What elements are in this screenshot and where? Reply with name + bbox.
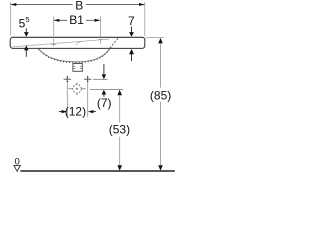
(12) right extension line <box>87 83 89 117</box>
svg-text:(7): (7) <box>97 96 112 110</box>
dimension B1 left arrow <box>54 19 60 22</box>
svg-text:5: 5 <box>25 15 29 24</box>
bowl arc hatch ticks <box>39 49 110 62</box>
extension line right of B1 <box>99 16 101 44</box>
drain fitting <box>73 64 82 72</box>
(85) bottom arrow <box>158 165 163 171</box>
svg-text:B1: B1 <box>69 13 84 27</box>
fixing point symbol right <box>84 75 91 83</box>
hidden bowl back edge (dashed diagonal) <box>110 37 119 48</box>
5.5 dim upper arrow (down) <box>25 28 27 32</box>
5.5 dim lower arrow (up) <box>24 45 28 50</box>
circle centerline ticks <box>68 82 85 95</box>
tap hole dashed circle <box>73 85 82 94</box>
(12) left arrow <box>59 111 62 113</box>
basin underside sloped line <box>13 39 109 47</box>
(85) dimension line <box>160 44 162 165</box>
zero level triangle <box>14 165 21 171</box>
hidden overflow dash <box>76 41 81 45</box>
reference line lower <box>90 88 123 90</box>
svg-text:(53): (53) <box>109 123 130 137</box>
dimension B line <box>11 4 145 6</box>
svg-text:7: 7 <box>128 14 135 28</box>
extension line left of B <box>9 2 11 35</box>
(53) dimension line <box>119 95 121 165</box>
washbasin slab outline <box>10 37 145 48</box>
(7) upper arrow (down) <box>103 64 105 75</box>
(12) right arrow <box>88 110 94 113</box>
svg-text:B: B <box>75 0 83 12</box>
extension line at slab top right <box>146 36 164 38</box>
7 dim upper arrow (down) <box>131 27 133 33</box>
tick on left B1 extension <box>51 44 55 46</box>
dimension B1 line <box>54 19 100 21</box>
tick on right B1 extension <box>98 39 102 41</box>
dimension B right arrow <box>139 3 145 6</box>
(12) left extension line <box>66 83 68 117</box>
(85) top arrow <box>158 38 163 44</box>
dimension B left arrow <box>11 3 17 6</box>
ground line <box>20 170 174 172</box>
extension line left of B1 <box>53 16 55 46</box>
dimension B1 right arrow <box>95 19 101 22</box>
drain thread ticks <box>74 66 82 68</box>
bowl underside arc <box>38 48 110 62</box>
extension line right of B <box>144 2 146 36</box>
(53) top arrow <box>117 90 122 96</box>
(7) lower arrow (up) <box>102 90 107 95</box>
(53) bottom arrow <box>117 165 122 171</box>
fixing point symbol left <box>64 75 71 83</box>
svg-text:(12): (12) <box>65 104 86 118</box>
reference line at fixing level <box>93 78 108 80</box>
7 dim lower arrow (up) <box>129 49 134 54</box>
svg-text:(85): (85) <box>150 88 171 102</box>
